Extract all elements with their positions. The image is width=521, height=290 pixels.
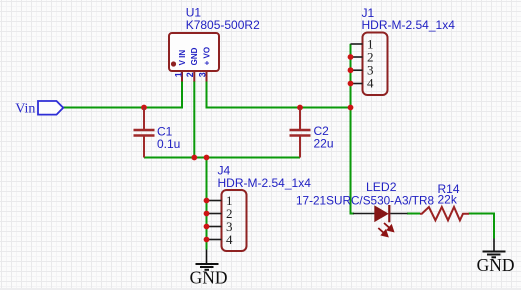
wire J1 column bbox=[350, 44, 352, 108]
connector J1 HDR-M-2.54_1x4 bbox=[348, 6, 456, 95]
svg-text:Vin: Vin bbox=[15, 102, 35, 117]
ground below J4 bbox=[190, 250, 228, 288]
svg-text:3: 3 bbox=[198, 72, 208, 77]
J1 pin 4 bbox=[351, 83, 363, 85]
regulator U1 K7805-500R2 body bbox=[169, 6, 260, 82]
wire Vin port to U1 pin 1 bbox=[63, 81, 182, 108]
ground bar 2 bbox=[200, 266, 214, 268]
C1 bottom lead bbox=[143, 137, 145, 158]
svg-text:GND: GND bbox=[477, 255, 515, 275]
svg-text:LED2: LED2 bbox=[366, 180, 397, 194]
svg-text:HDR-M-2.54_1x4: HDR-M-2.54_1x4 bbox=[362, 18, 456, 32]
junction at J4 pin 4 bbox=[204, 237, 210, 243]
svg-text:22u: 22u bbox=[314, 137, 334, 151]
svg-text:V IN: V IN bbox=[178, 50, 187, 66]
resistor R14 bbox=[420, 182, 469, 221]
wire junction down to LED2 anode bbox=[351, 108, 355, 214]
capacitor C2 bbox=[290, 108, 334, 158]
ground pin bbox=[206, 250, 208, 264]
pin 1 marker dot bbox=[171, 61, 176, 66]
wire ground rail C1 to C2 bbox=[144, 157, 300, 159]
J4 pin 3 bbox=[207, 226, 222, 228]
svg-text:22k: 22k bbox=[438, 193, 458, 207]
svg-text:4: 4 bbox=[226, 232, 233, 247]
ground bar 3 bbox=[205, 269, 210, 271]
C2 top lead bbox=[299, 108, 301, 130]
ground bar 1 bbox=[483, 251, 506, 253]
U1 pin 3 stub bbox=[206, 71, 208, 82]
svg-text:K7805-500R2: K7805-500R2 bbox=[186, 18, 260, 32]
junction main rail at C2 bbox=[297, 105, 303, 111]
wire U1 pin 3 to J1/LED junction bbox=[207, 81, 351, 108]
R14 zigzag body bbox=[420, 207, 469, 220]
J4 pin 2 bbox=[207, 213, 222, 215]
svg-text:GND: GND bbox=[190, 47, 199, 65]
LED2 anode pin bbox=[353, 213, 375, 215]
junction main rail at C1 bbox=[141, 105, 147, 111]
junction ground rail at U1 pin 2 bbox=[191, 155, 197, 161]
C2 top plate bbox=[290, 129, 311, 131]
junction at J4 pin 3 bbox=[204, 224, 210, 230]
C2 bottom plate bbox=[290, 134, 311, 136]
port Vin bbox=[15, 101, 63, 117]
wire U1 pin 2 down to ground rail bbox=[193, 81, 195, 158]
J1 pin 1 bbox=[351, 43, 363, 45]
LED2 cathode bar bbox=[388, 205, 390, 222]
wire J4 column down to ground bbox=[206, 158, 208, 250]
junction at J1 pin 4 bbox=[348, 81, 354, 87]
ground bar 3 bbox=[492, 256, 497, 258]
U1 pin 1 stub bbox=[181, 71, 183, 82]
capacitor C1 bbox=[134, 108, 181, 158]
U1 pin 2 stub bbox=[193, 71, 195, 82]
connector J4 HDR-M-2.54_1x4 bbox=[204, 164, 312, 252]
svg-text:GND: GND bbox=[190, 268, 228, 288]
LED2 emission arrow 2 bbox=[378, 228, 388, 237]
svg-text:0.1u: 0.1u bbox=[157, 137, 180, 151]
svg-text:+ VO: + VO bbox=[202, 47, 211, 65]
J4 body bbox=[222, 190, 247, 251]
ground pin bbox=[493, 239, 495, 251]
ground bar 1 bbox=[196, 263, 219, 265]
ground bar 2 bbox=[487, 254, 501, 256]
svg-text:HDR-M-2.54_1x4: HDR-M-2.54_1x4 bbox=[218, 176, 312, 190]
LED2 emission arrow 1 bbox=[384, 223, 394, 232]
svg-text:4: 4 bbox=[367, 76, 374, 91]
ground below R14 bbox=[477, 239, 515, 276]
junction ground rail at J4 column bbox=[204, 155, 210, 161]
junction main rail at J1/LED column bbox=[348, 105, 354, 111]
svg-text:1: 1 bbox=[174, 72, 184, 77]
J4 pin 1 bbox=[207, 200, 222, 202]
diode LED2 bbox=[296, 180, 434, 237]
LED2 triangle bbox=[375, 206, 389, 222]
C1 bottom plate bbox=[134, 134, 155, 136]
svg-text:2: 2 bbox=[185, 72, 195, 77]
J4 pin 4 bbox=[207, 239, 222, 241]
junction at J1 pin 3 bbox=[348, 67, 354, 73]
junction at J4 pin 1 bbox=[204, 198, 210, 204]
J1 pin 2 bbox=[351, 56, 363, 58]
svg-text:17-21SURC/S530-A3/TR8: 17-21SURC/S530-A3/TR8 bbox=[296, 194, 434, 208]
J1 pin 3 bbox=[351, 69, 363, 71]
junction at J1 pin 2 bbox=[348, 54, 354, 60]
junction at J4 pin 2 bbox=[204, 211, 210, 217]
C1 top plate bbox=[134, 129, 155, 131]
wire LED2 cathode to R14 bbox=[407, 213, 420, 215]
J1 body bbox=[363, 33, 388, 96]
C2 bottom lead bbox=[299, 137, 301, 158]
LED2 cathode pin bbox=[390, 213, 407, 215]
wire R14 to right ground bbox=[469, 214, 495, 239]
C1 top lead bbox=[143, 108, 145, 130]
